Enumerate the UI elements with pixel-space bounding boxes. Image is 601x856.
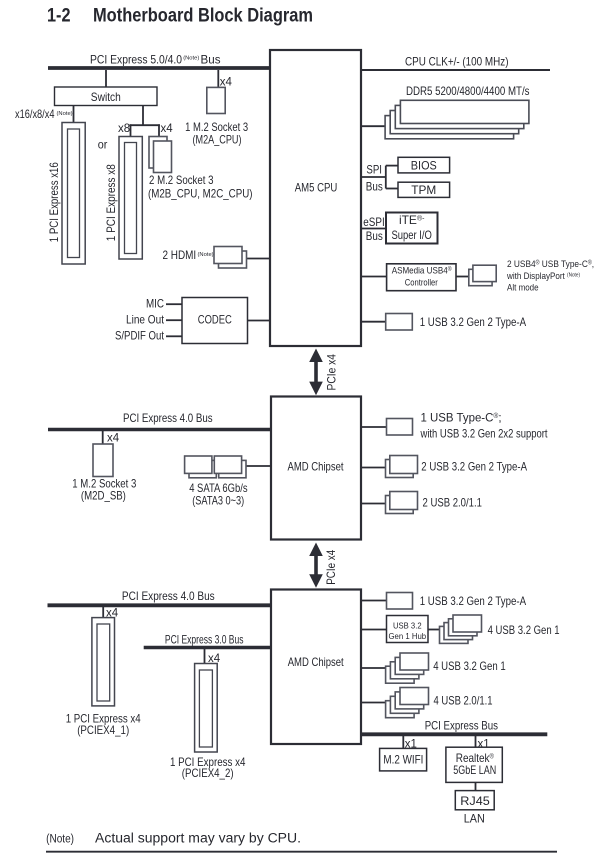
svg-text:(SATA3 0~3): (SATA3 0~3) <box>192 494 244 508</box>
svg-text:with USB 3.2 Gen 2x2 support: with USB 3.2 Gen 2x2 support <box>420 426 548 440</box>
svg-text:AMD Chipset: AMD Chipset <box>288 459 345 473</box>
TPM block <box>398 182 450 197</box>
bus PCI Express 4.0 (bottom) <box>48 589 272 605</box>
connector 4 SATA 6Gb/s <box>185 456 271 508</box>
wire to PCIEX4_2 <box>204 649 206 664</box>
svg-text:ASMedia USB4®: ASMedia USB4® <box>392 265 452 276</box>
svg-text:(Note): (Note) <box>46 834 74 846</box>
wire switch to x16 slot <box>73 106 75 123</box>
svg-text:TPM: TPM <box>411 183 436 197</box>
svg-text:2 M.2 Socket 3: 2 M.2 Socket 3 <box>149 173 214 187</box>
bus PCI Express 4.0 (middle) <box>48 411 271 430</box>
svg-text:LAN: LAN <box>464 812 485 826</box>
svg-text:Alt mode: Alt mode <box>507 283 539 294</box>
bus eSPI <box>361 228 386 230</box>
connector 1 M.2 Socket 3 (M2A_CPU) <box>185 87 248 146</box>
svg-text:AM5 CPU: AM5 CPU <box>295 181 338 195</box>
connector 4 USB 2.0/1.1 <box>361 688 493 718</box>
svg-text:1 USB 3.2 Gen 2 Type-A: 1 USB 3.2 Gen 2 Type-A <box>420 315 526 329</box>
svg-text:1 USB Type-C®;: 1 USB Type-C®; <box>421 410 502 424</box>
slot 1 PCI Express x16 <box>47 123 85 265</box>
slot 1 PCI Express x4 (PCIEX4_2) <box>170 664 246 781</box>
title 1-2 Motherboard Block Diagram <box>47 5 313 26</box>
label x16/x8/x4 <box>15 107 73 121</box>
svg-text:RJ45: RJ45 <box>460 794 490 808</box>
wire switch to x8/x4 branch <box>130 106 160 137</box>
node MIC <box>146 297 182 311</box>
connector 2 USB 2.0/1.1 <box>361 492 482 514</box>
svg-text:DDR5 5200/4800/4400 MT/s: DDR5 5200/4800/4400 MT/s <box>406 84 530 98</box>
connector 1 USB 3.2 Gen 2 Type-A (bottom chipset) <box>361 593 526 610</box>
svg-text:Motherboard Block Diagram: Motherboard Block Diagram <box>93 5 313 26</box>
node S/PDIF Out <box>115 329 182 343</box>
bus PCI Express 5.0/4.0 <box>48 53 270 69</box>
svg-text:M.2 WIFI: M.2 WIFI <box>383 752 423 766</box>
svg-text:(PCIEX4_1): (PCIEX4_1) <box>77 723 129 737</box>
codec block <box>182 298 248 344</box>
BIOS block <box>398 157 450 173</box>
arrow PCIe x4 cpu-chipset <box>309 349 338 396</box>
svg-text:PCI Express 5.0/4.0: PCI Express 5.0/4.0 <box>90 53 182 67</box>
memory DDR5 <box>361 84 530 139</box>
wire Realtek to RJ45 <box>475 782 477 790</box>
connector 2 USB4 Type-C <box>456 259 594 294</box>
hub USB 3.2 Gen 1 <box>361 616 428 643</box>
svg-text:PCIe x4: PCIe x4 <box>324 354 338 391</box>
svg-text:2 USB 3.2 Gen 2 Type-A: 2 USB 3.2 Gen 2 Type-A <box>421 460 527 474</box>
connector 1 USB 3.2 Gen 2 Type-A (CPU) <box>361 314 526 331</box>
svg-text:eSPI: eSPI <box>363 215 384 229</box>
svg-text:Line Out: Line Out <box>126 312 165 326</box>
wire bus to M2A socket <box>217 70 219 87</box>
chipset AMD (middle) <box>271 397 361 540</box>
svg-text:x4: x4 <box>161 123 174 135</box>
svg-text:1 PCI Express x16: 1 PCI Express x16 <box>47 162 61 242</box>
svg-text:1-2: 1-2 <box>47 5 71 26</box>
svg-text:4 USB 3.2 Gen 1: 4 USB 3.2 Gen 1 <box>433 659 506 673</box>
wire to M2D <box>102 431 104 444</box>
wire to PCIEX4_1 <box>102 607 104 618</box>
bus PCI Express (bottom right) <box>361 719 547 735</box>
connector 2 M.2 Socket 3 (M2B_CPU, M2C_CPU) <box>148 137 253 201</box>
wire to Realtek <box>475 736 477 747</box>
svg-text:MIC: MIC <box>146 297 164 311</box>
svg-text:x8: x8 <box>118 123 130 135</box>
block RJ45 <box>455 791 494 810</box>
svg-text:Bus: Bus <box>201 53 221 67</box>
svg-text:S/PDIF Out: S/PDIF Out <box>115 329 165 343</box>
wire codec to cpu <box>248 320 271 322</box>
connector 1 USB Type-C (chipset) <box>361 410 548 440</box>
svg-text:1 USB 3.2 Gen 2 Type-A: 1 USB 3.2 Gen 2 Type-A <box>420 594 526 608</box>
svg-text:AMD Chipset: AMD Chipset <box>288 655 345 669</box>
svg-text:PCI Express 3.0 Bus: PCI Express 3.0 Bus <box>165 632 244 646</box>
svg-text:x16/x8/x4: x16/x8/x4 <box>15 107 55 121</box>
svg-text:(M2B_CPU, M2C_CPU): (M2B_CPU, M2C_CPU) <box>148 187 253 201</box>
slot 1 PCI Express x4 (PCIEX4_1) <box>66 618 141 737</box>
wire to M.2 WIFI <box>402 736 404 748</box>
footer note <box>46 831 557 852</box>
svg-text:PCI Express Bus: PCI Express Bus <box>425 719 498 733</box>
svg-text:x4: x4 <box>107 433 120 445</box>
svg-text:PCI Express 4.0 Bus: PCI Express 4.0 Bus <box>123 411 213 425</box>
wire bus to switch <box>105 70 107 87</box>
bus SPI <box>361 166 398 189</box>
svg-text:(Note): (Note) <box>183 56 199 62</box>
svg-text:Switch: Switch <box>91 90 121 104</box>
svg-text:1 PCI Express x8: 1 PCI Express x8 <box>104 164 118 241</box>
connector 2 USB 3.2 Gen 2 Type-A <box>361 456 527 478</box>
svg-text:Controller: Controller <box>405 277 438 288</box>
connector 4 USB 3.2 Gen 1 (hub) <box>428 615 560 643</box>
svg-text:2 HDMI: 2 HDMI <box>163 248 197 262</box>
svg-text:or: or <box>98 137 108 151</box>
svg-text:Bus: Bus <box>366 229 383 243</box>
switch box <box>55 87 158 106</box>
svg-text:(Note): (Note) <box>57 111 73 117</box>
ASMedia USB4 controller <box>361 264 456 291</box>
bus PCI Express 3.0 <box>144 632 271 647</box>
connector 4 USB 3.2 Gen 1 (chipset) <box>361 653 506 683</box>
node Line Out <box>126 312 182 326</box>
iTE Super I/O block <box>386 213 438 244</box>
slot 1 PCI Express x8 <box>104 137 142 260</box>
arrow PCIe x4 chipset-chipset <box>309 543 338 588</box>
svg-text:(M2A_CPU): (M2A_CPU) <box>193 132 242 146</box>
connector 1 M.2 Socket 3 (M2D_SB) <box>72 444 136 503</box>
svg-text:Super I/O: Super I/O <box>392 228 432 242</box>
connector 2 HDMI <box>163 247 271 269</box>
svg-text:CODEC: CODEC <box>198 312 232 326</box>
svg-text:(Note): (Note) <box>198 252 214 258</box>
svg-text:2 USB 2.0/1.1: 2 USB 2.0/1.1 <box>423 496 483 510</box>
block Realtek 5GbE LAN <box>446 747 502 782</box>
svg-text:PCIe x4: PCIe x4 <box>324 550 338 585</box>
svg-text:(PCIEX4_2): (PCIEX4_2) <box>182 766 234 780</box>
svg-text:2 USB4® USB Type-C®,: 2 USB4® USB Type-C®, <box>507 259 594 270</box>
AM5 CPU U1 <box>270 50 361 346</box>
svg-text:4 USB 3.2 Gen 1: 4 USB 3.2 Gen 1 <box>488 623 560 637</box>
block M.2 WIFI <box>380 748 427 771</box>
svg-text:Bus: Bus <box>366 179 383 193</box>
svg-text:BIOS: BIOS <box>411 158 437 172</box>
svg-text:CPU CLK+/- (100 MHz): CPU CLK+/- (100 MHz) <box>405 55 509 69</box>
svg-text:Actual support may vary by CPU: Actual support may vary by CPU. <box>95 831 301 846</box>
svg-text:(M2D_SB): (M2D_SB) <box>81 489 126 503</box>
svg-text:PCI Express 4.0 Bus: PCI Express 4.0 Bus <box>122 589 215 603</box>
svg-text:USB 3.2: USB 3.2 <box>393 621 422 631</box>
bus CPU CLK <box>361 55 550 71</box>
svg-text:SPI: SPI <box>366 162 382 176</box>
svg-text:Gen 1 Hub: Gen 1 Hub <box>389 631 427 641</box>
svg-text:4 USB 2.0/1.1: 4 USB 2.0/1.1 <box>434 694 493 708</box>
svg-text:5GbE LAN: 5GbE LAN <box>453 763 496 777</box>
chipset AMD (bottom) <box>271 590 361 745</box>
